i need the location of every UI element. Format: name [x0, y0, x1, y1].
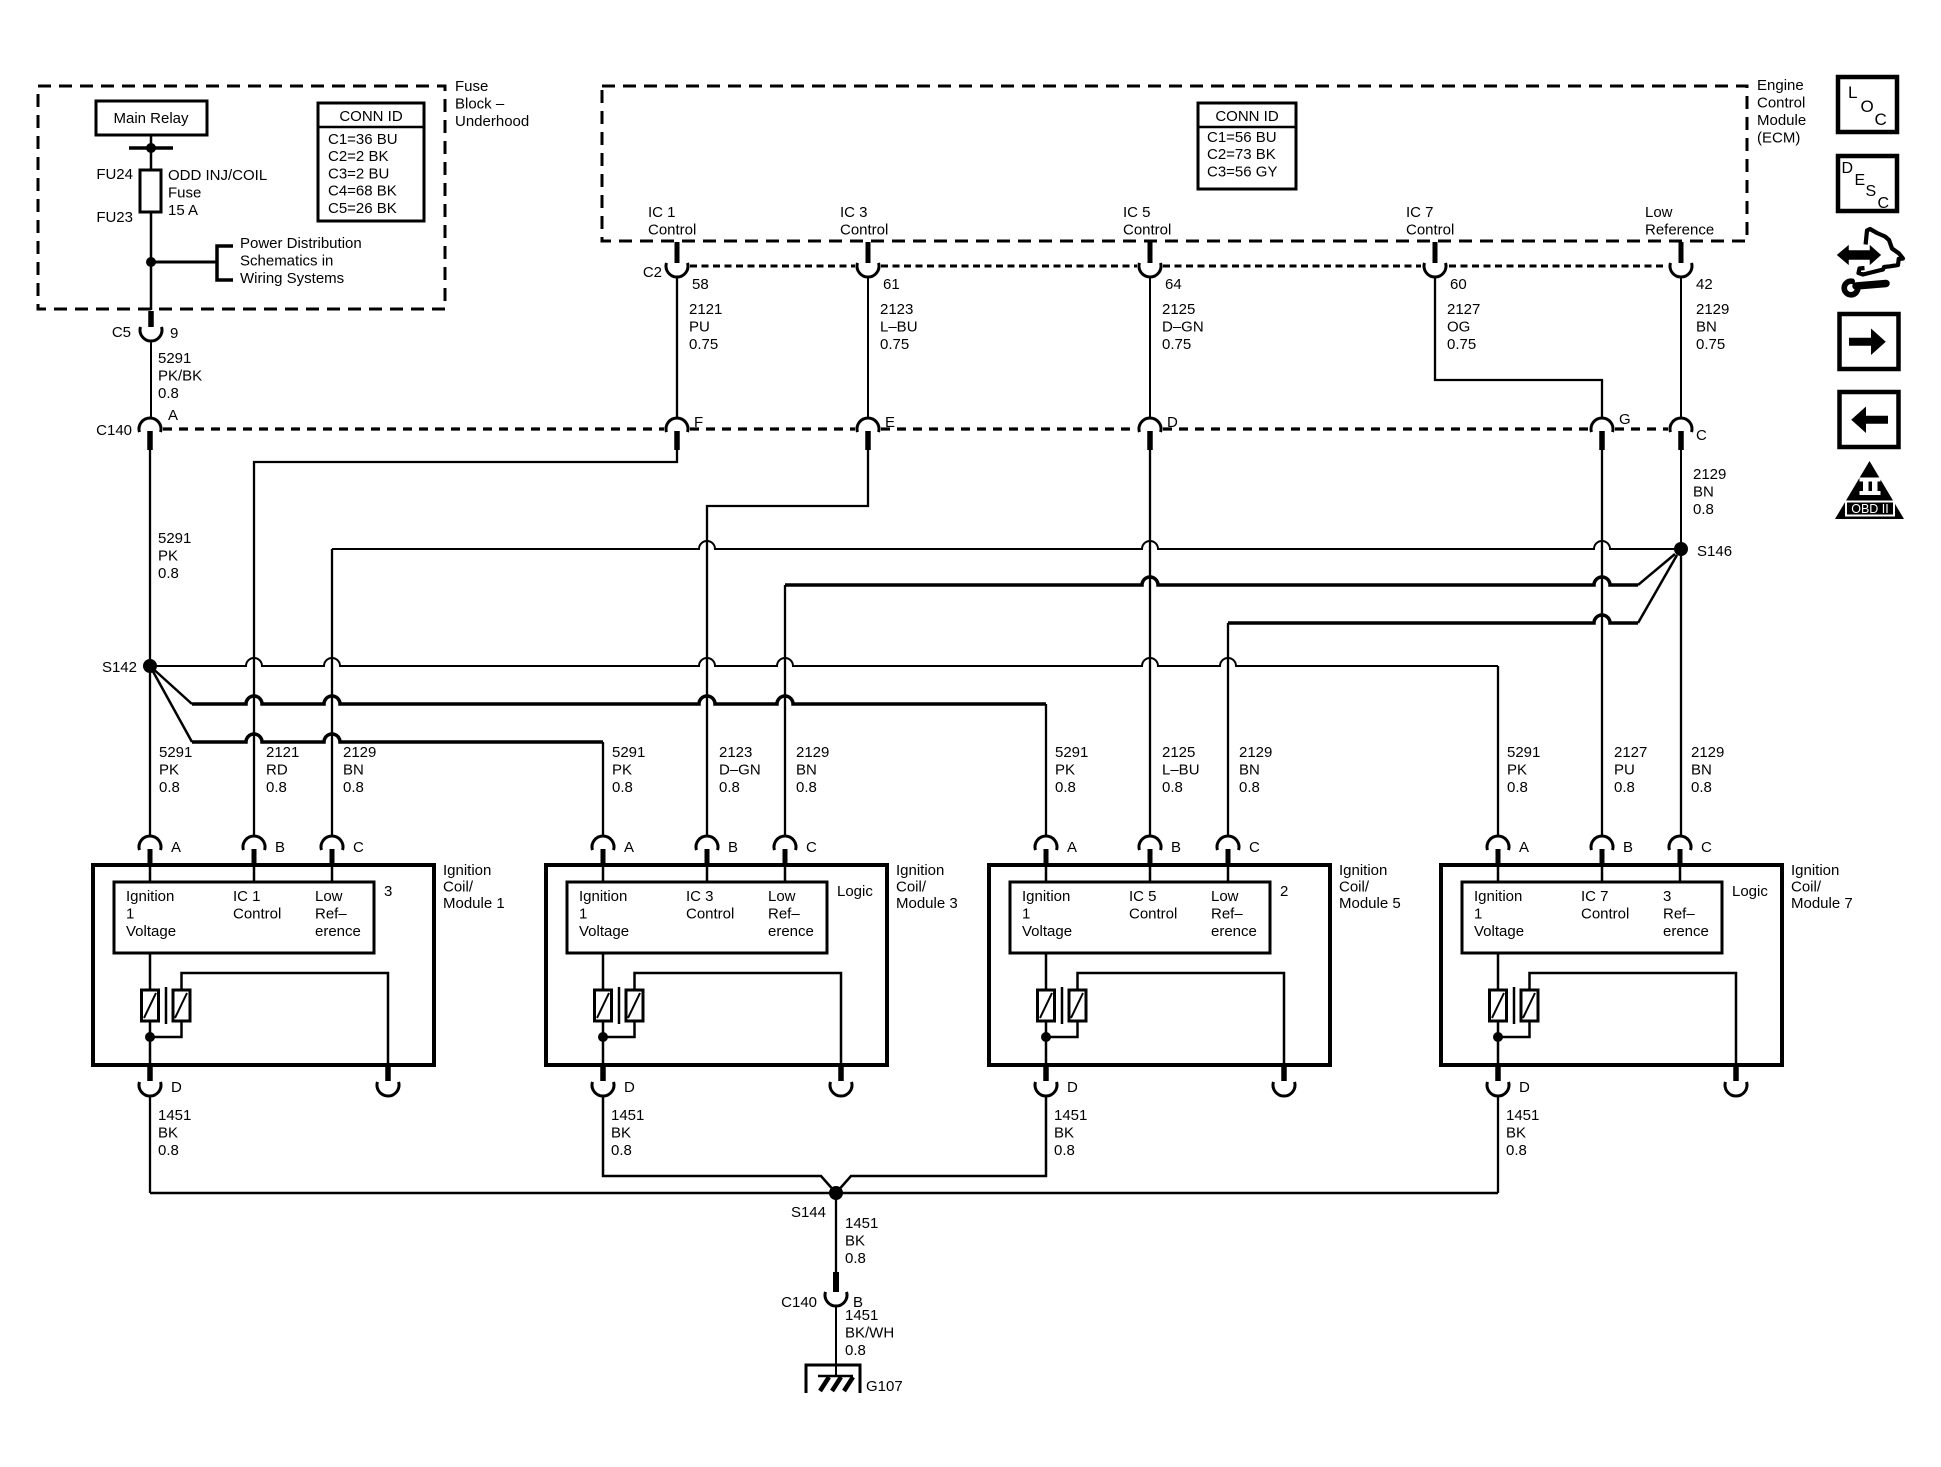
svg-text:D–GN: D–GN	[1162, 318, 1204, 335]
C2 harness dotted line	[690, 265, 1667, 268]
svg-text:2121: 2121	[266, 744, 299, 761]
label Ignition Coil/ Module 1	[443, 862, 505, 912]
coil T3 core	[618, 987, 621, 1024]
svg-text:61: 61	[883, 276, 900, 293]
label 3 Ref-erence	[1663, 888, 1709, 940]
svg-text:B: B	[1623, 839, 1633, 856]
svg-text:C: C	[1701, 839, 1712, 856]
wire bus 2129 BN S146 to module1 pin C	[332, 541, 1674, 836]
svg-text:(ECM): (ECM)	[1757, 129, 1800, 146]
svg-text:5291: 5291	[158, 350, 191, 367]
svg-text:ODD INJ/COIL: ODD INJ/COIL	[168, 167, 267, 184]
pin letter B	[853, 1294, 863, 1311]
wire bus 5291 PK S142 to module7 pin A	[150, 658, 1498, 836]
module 1 logic block	[114, 882, 374, 953]
svg-text:B: B	[1171, 839, 1181, 856]
svg-text:1: 1	[1022, 905, 1030, 922]
wire logic block to primary winding	[149, 953, 152, 990]
coil T5 core	[1061, 987, 1064, 1024]
value label 5291 PK 0.8	[159, 744, 192, 796]
pin letter A	[624, 839, 634, 856]
svg-text:0.8: 0.8	[1614, 779, 1635, 796]
svg-text:0.75: 0.75	[1696, 336, 1725, 353]
svg-text:Ref–: Ref–	[768, 905, 800, 922]
wire junction to pin D	[602, 1037, 605, 1065]
wire logic block to primary winding	[602, 953, 605, 990]
svg-text:Module 3: Module 3	[896, 895, 958, 912]
svg-text:2127: 2127	[1447, 301, 1480, 318]
pin letter C	[1249, 839, 1260, 856]
wire S142 down to module1 pin A	[149, 666, 151, 836]
label Ignition 1 Voltage	[1474, 888, 1524, 940]
splice S144	[829, 1186, 843, 1200]
coil T7 core	[1513, 987, 1516, 1024]
svg-text:Low: Low	[768, 888, 796, 905]
svg-text:Ignition: Ignition	[443, 862, 491, 879]
svg-text:PU: PU	[689, 318, 710, 335]
label IC 7 Control	[1581, 888, 1629, 923]
wire junction to pin D	[1497, 1037, 1500, 1065]
value label 5291 PK/BK 0.8	[158, 350, 202, 402]
svg-text:2123: 2123	[719, 744, 752, 761]
wire relay to bus bar	[150, 135, 153, 148]
connector C2 pin 42	[1670, 242, 1692, 277]
label Ignition 1 Voltage	[579, 888, 629, 940]
module 7 pin feed wires into logic block	[1498, 866, 1680, 882]
pin letter A	[171, 839, 181, 856]
wire C140-D to module5 pin B	[1149, 450, 1151, 836]
svg-text:L–BU: L–BU	[880, 318, 918, 335]
svg-text:1451: 1451	[1506, 1107, 1539, 1124]
corner label Logic	[837, 883, 873, 900]
junction dot module 3 windings	[598, 1032, 608, 1042]
svg-text:C: C	[806, 839, 817, 856]
wire 1451 BK module1 D to ground bus	[149, 1096, 151, 1193]
svg-text:0.8: 0.8	[1055, 779, 1076, 796]
svg-text:FU23: FU23	[96, 209, 133, 226]
value label 2129 BN 0.8 upper	[1693, 466, 1726, 518]
connector module 5 pin A	[1035, 836, 1057, 866]
svg-text:B: B	[275, 839, 285, 856]
connector C140 pin B	[825, 1272, 847, 1306]
icon OBD II triangle	[1835, 461, 1904, 519]
value label 1451 BK 0.8 module 7	[1506, 1107, 1539, 1159]
svg-text:5291: 5291	[159, 744, 192, 761]
ECM output label Low Reference	[1645, 204, 1714, 239]
svg-text:3: 3	[1663, 888, 1671, 905]
corner label 2	[1280, 883, 1288, 900]
svg-text:PK: PK	[612, 761, 632, 778]
pin letter B	[275, 839, 285, 856]
svg-text:Low: Low	[315, 888, 343, 905]
svg-text:0.8: 0.8	[343, 779, 364, 796]
svg-text:E: E	[1855, 172, 1866, 189]
icon diagnostic double arrow with wrench	[1838, 229, 1903, 295]
svg-text:OBD II: OBD II	[1851, 502, 1889, 516]
wire junction to off-page bracket	[151, 261, 216, 264]
connector module 7 pin C	[1669, 836, 1691, 866]
svg-text:erence: erence	[1663, 923, 1709, 940]
pin letter A	[168, 407, 178, 424]
svg-text:2123: 2123	[880, 301, 913, 318]
svg-text:erence: erence	[1211, 923, 1257, 940]
corner label 3	[384, 883, 392, 900]
coil T7 secondary winding	[1521, 990, 1538, 1021]
label IC 3 Control	[686, 888, 734, 923]
module 7 logic block	[1462, 882, 1722, 953]
connector C140 pin A	[139, 418, 161, 450]
value label 2129 BN 0.75	[1696, 301, 1729, 353]
ignition coil module 1 outer box	[93, 865, 434, 1065]
value label 2123 D&#8211;GN 0.8	[719, 744, 761, 796]
junction dot module 5 windings	[1041, 1032, 1051, 1042]
wire secondary return to junction	[150, 1021, 182, 1037]
svg-text:2129: 2129	[1691, 744, 1724, 761]
svg-text:A: A	[1067, 839, 1077, 856]
icon arrow left box	[1840, 392, 1899, 447]
wire bus 5291 PK S142 to module3 pin A	[150, 666, 603, 836]
wire primary to junction	[1045, 1021, 1048, 1037]
wire S144 to C140-B	[835, 1193, 837, 1272]
svg-text:1451: 1451	[158, 1107, 191, 1124]
label C5	[112, 324, 131, 341]
ECM dashed box	[602, 86, 1747, 241]
svg-text:Module: Module	[1757, 112, 1806, 129]
svg-text:C5=26 BK: C5=26 BK	[328, 200, 397, 217]
module 1 pin feed wires into logic block	[150, 866, 332, 882]
wire bus 2129 BN S146 to module3 pin C	[785, 554, 1675, 836]
pin letter F	[694, 414, 703, 431]
svg-text:Ref–: Ref–	[1211, 905, 1243, 922]
svg-text:Logic: Logic	[1732, 883, 1768, 900]
label Ignition Coil/ Module 5	[1339, 862, 1401, 912]
coil T1 secondary winding	[173, 990, 190, 1021]
svg-text:0.8: 0.8	[845, 1342, 866, 1359]
svg-text:Control: Control	[648, 221, 696, 238]
svg-text:C: C	[1875, 110, 1887, 129]
svg-text:C3=2 BU: C3=2 BU	[328, 165, 389, 182]
ignition coil module 7 outer box	[1441, 865, 1782, 1065]
wire C140-G to module7 pin B	[1601, 450, 1603, 836]
svg-text:0.8: 0.8	[158, 385, 179, 402]
ECM output label IC 5 Control	[1123, 204, 1171, 239]
svg-text:PK: PK	[159, 761, 179, 778]
svg-text:0.75: 0.75	[1162, 336, 1191, 353]
connector module 3 spark output	[830, 1067, 852, 1096]
label Ignition Coil/ Module 3	[896, 862, 958, 912]
svg-text:2129: 2129	[1239, 744, 1272, 761]
coil T3 primary winding	[595, 990, 612, 1021]
pin letter B	[1171, 839, 1181, 856]
svg-text:A: A	[168, 407, 178, 424]
svg-text:Ignition: Ignition	[126, 888, 174, 905]
svg-text:9: 9	[170, 325, 178, 342]
svg-text:D: D	[1842, 160, 1854, 177]
wire primary to junction	[602, 1021, 605, 1037]
svg-text:D: D	[1067, 1079, 1078, 1096]
svg-text:Engine: Engine	[1757, 77, 1804, 94]
svg-text:erence: erence	[315, 923, 361, 940]
svg-text:C4=68 BK: C4=68 BK	[328, 183, 397, 200]
svg-text:Voltage: Voltage	[1474, 923, 1524, 940]
connector module 7 pin B	[1591, 836, 1613, 866]
label IC 5 Control	[1129, 888, 1177, 923]
svg-text:D: D	[171, 1079, 182, 1096]
value label 2129 BN 0.8	[796, 744, 829, 796]
svg-text:IC 1: IC 1	[648, 204, 676, 221]
connector module 5 pin C	[1217, 836, 1239, 866]
ignition coil module 5 outer box	[989, 865, 1330, 1065]
svg-text:0.8: 0.8	[159, 779, 180, 796]
label G107	[866, 1378, 903, 1395]
pin letter D	[1519, 1079, 1530, 1096]
fuse block underhood dashed box	[38, 86, 445, 309]
wire logic block to primary winding	[1045, 953, 1048, 990]
svg-text:0.8: 0.8	[612, 779, 633, 796]
module 5 logic block	[1010, 882, 1270, 953]
svg-text:C: C	[353, 839, 364, 856]
connector module 7 pin D	[1487, 1067, 1509, 1096]
svg-text:1451: 1451	[1054, 1107, 1087, 1124]
label Engine Control Module (ECM)	[1757, 77, 1806, 147]
svg-text:C1=56 BU: C1=56 BU	[1207, 129, 1277, 146]
svg-text:Ignition: Ignition	[1474, 888, 1522, 905]
svg-text:IC 3: IC 3	[686, 888, 714, 905]
corner label Logic	[1732, 883, 1768, 900]
svg-text:64: 64	[1165, 276, 1182, 293]
svg-text:1: 1	[579, 905, 587, 922]
svg-text:C2=2 BK: C2=2 BK	[328, 148, 388, 165]
pin number 42	[1696, 276, 1713, 293]
connector module 1 pin B	[243, 836, 265, 866]
svg-text:1: 1	[1474, 905, 1482, 922]
svg-text:0.8: 0.8	[1239, 779, 1260, 796]
pin label FU23	[96, 209, 133, 226]
svg-text:Low: Low	[1645, 204, 1673, 221]
svg-text:2129: 2129	[796, 744, 829, 761]
svg-text:IC 3: IC 3	[840, 204, 868, 221]
label Low Ref-erence	[1211, 888, 1257, 940]
value label 2127 PU 0.8	[1614, 744, 1647, 796]
svg-text:PK/BK: PK/BK	[158, 367, 202, 384]
svg-text:5291: 5291	[612, 744, 645, 761]
svg-text:BK: BK	[1054, 1124, 1074, 1141]
connector C2 pin 58	[666, 242, 688, 277]
connector module 7 pin A	[1487, 836, 1509, 866]
connector module 5 pin D	[1035, 1067, 1057, 1096]
wire S146 to module7 pin C circuit 2129 BN	[1680, 549, 1682, 836]
icon DESC box	[1838, 156, 1897, 212]
svg-text:O: O	[1861, 97, 1874, 116]
coil T5 primary winding	[1038, 990, 1055, 1021]
connector module 1 pin A	[139, 836, 161, 866]
label C140	[781, 1294, 817, 1311]
wire secondary return to junction	[1498, 1021, 1530, 1037]
svg-text:C3=56 GY: C3=56 GY	[1207, 163, 1277, 180]
pin letter B	[728, 839, 738, 856]
label C2	[643, 264, 662, 281]
svg-text:2129: 2129	[343, 744, 376, 761]
wire junction to pin D	[149, 1037, 152, 1065]
ECM output label IC 1 Control	[648, 204, 696, 239]
svg-text:Ref–: Ref–	[1663, 905, 1695, 922]
svg-text:C2=73 BK: C2=73 BK	[1207, 146, 1276, 163]
wire 1451 BK module5 D to S144	[836, 1096, 1046, 1193]
svg-text:2121: 2121	[689, 301, 722, 318]
svg-text:BN: BN	[796, 761, 817, 778]
coil T1 primary winding	[142, 990, 159, 1021]
svg-text:FU24: FU24	[96, 166, 133, 183]
svg-text:C1=36 BU: C1=36 BU	[328, 131, 398, 148]
svg-text:Control: Control	[1406, 221, 1454, 238]
value label 2123 L-BU 0.75	[880, 301, 918, 353]
connector C2 pin 64	[1139, 242, 1161, 277]
value label 5291 PK 0.8	[1055, 744, 1088, 796]
module 5 pin feed wires into logic block	[1046, 866, 1228, 882]
relay K Main Relay	[96, 101, 207, 135]
pin letter D	[1067, 1079, 1078, 1096]
svg-text:BK: BK	[845, 1232, 865, 1249]
svg-text:A: A	[1519, 839, 1529, 856]
pin letter C	[353, 839, 364, 856]
wire secondary high to spark output	[1530, 973, 1737, 1065]
svg-text:1: 1	[126, 905, 134, 922]
svg-text:C5: C5	[112, 324, 131, 341]
svg-text:BK/WH: BK/WH	[845, 1324, 894, 1341]
label Low Ref-erence	[768, 888, 814, 940]
wire junction to pin D	[1045, 1037, 1048, 1065]
connector module 5 pin B	[1139, 836, 1161, 866]
svg-text:Logic: Logic	[837, 883, 873, 900]
svg-text:0.75: 0.75	[1447, 336, 1476, 353]
value label 1451 BK 0.8 module 3	[611, 1107, 644, 1159]
ECM output label IC 7 Control	[1406, 204, 1454, 239]
svg-text:Module 1: Module 1	[443, 895, 505, 912]
pin letter B	[1623, 839, 1633, 856]
svg-text:C: C	[1249, 839, 1260, 856]
svg-text:Fuse: Fuse	[168, 184, 201, 201]
svg-text:1451: 1451	[611, 1107, 644, 1124]
svg-text:IC 5: IC 5	[1129, 888, 1157, 905]
value label 5291 PK 0.8	[158, 530, 191, 582]
value label 2129 BN 0.8	[1691, 744, 1724, 796]
label C140	[96, 422, 132, 439]
junction dot module 7 windings	[1493, 1032, 1503, 1042]
svg-text:Ignition: Ignition	[1791, 862, 1839, 879]
svg-text:PK: PK	[1507, 761, 1527, 778]
connector C140 pin C	[1670, 418, 1692, 450]
svg-text:S144: S144	[791, 1204, 826, 1221]
pin letter E	[885, 414, 895, 431]
connector C140 pin F	[666, 418, 688, 450]
ground G107	[806, 1365, 860, 1393]
icon arrow right box	[1840, 314, 1899, 369]
wire primary to junction	[1497, 1021, 1500, 1037]
wire 2121 PU from pin 58 to C140-F	[676, 277, 678, 418]
svg-text:Control: Control	[233, 905, 281, 922]
svg-text:0.8: 0.8	[158, 1142, 179, 1159]
wire bar to fuse FU24	[150, 148, 153, 170]
svg-text:D: D	[1519, 1079, 1530, 1096]
value label 5291 PK 0.8	[1507, 744, 1540, 796]
svg-text:PU: PU	[1614, 761, 1635, 778]
wire secondary high to spark output	[635, 973, 842, 1065]
module 3 logic block	[567, 882, 827, 953]
svg-text:Ref–: Ref–	[315, 905, 347, 922]
pin letter G	[1619, 411, 1631, 428]
svg-text:BK: BK	[611, 1124, 631, 1141]
CONN ID table fuse block	[318, 103, 424, 221]
ignition coil module 3 outer box	[546, 865, 887, 1065]
svg-text:RD: RD	[266, 761, 288, 778]
svg-text:G: G	[1619, 411, 1631, 428]
pin number 58	[692, 276, 709, 293]
svg-text:BN: BN	[1693, 483, 1714, 500]
connector module 7 spark output	[1725, 1067, 1747, 1096]
value label 2125 L&#8211;BU 0.8	[1162, 744, 1200, 796]
label S144	[791, 1204, 826, 1221]
svg-text:A: A	[624, 839, 634, 856]
svg-text:C140: C140	[781, 1294, 817, 1311]
svg-text:D–GN: D–GN	[719, 761, 761, 778]
connector module 3 pin A	[592, 836, 614, 866]
svg-text:Ignition: Ignition	[579, 888, 627, 905]
svg-text:2125: 2125	[1162, 744, 1195, 761]
connector module 3 pin C	[774, 836, 796, 866]
svg-text:5291: 5291	[1507, 744, 1540, 761]
icon LOC box	[1838, 77, 1897, 132]
wire 2129 BN from pin 42 to C140-C	[1680, 277, 1682, 418]
svg-text:Block –: Block –	[455, 95, 505, 112]
wire secondary high to spark output	[182, 973, 389, 1065]
value label 1451 BK 0.8 module 1	[158, 1107, 191, 1159]
svg-text:IC 5: IC 5	[1123, 204, 1151, 221]
svg-text:Schematics in: Schematics in	[240, 252, 333, 269]
wire 1451 BK module3 D to S144	[603, 1096, 836, 1193]
svg-text:G107: G107	[866, 1378, 903, 1395]
label Low Ref-erence	[315, 888, 361, 940]
svg-text:BN: BN	[1696, 318, 1717, 335]
svg-text:5291: 5291	[158, 530, 191, 547]
pin letter D	[624, 1079, 635, 1096]
connector C5 pin 9	[140, 311, 162, 341]
svg-text:Low: Low	[1211, 888, 1239, 905]
wire C5 to C140-A circuit 5291	[150, 341, 152, 418]
pin letter C	[806, 839, 817, 856]
svg-text:2129: 2129	[1693, 466, 1726, 483]
svg-text:0.8: 0.8	[611, 1142, 632, 1159]
splice S146	[1674, 542, 1688, 556]
wire C140-E jog to module3 pin B	[707, 450, 868, 836]
pin number 9	[170, 325, 178, 342]
wire 2123 L-BU from pin 61 to C140-E	[867, 277, 869, 418]
svg-text:0.75: 0.75	[880, 336, 909, 353]
C140 harness dashed line	[163, 427, 1668, 430]
connector C2 pin 61	[857, 242, 879, 277]
svg-text:Module 7: Module 7	[1791, 895, 1853, 912]
svg-text:A: A	[171, 839, 181, 856]
svg-text:58: 58	[692, 276, 709, 293]
svg-text:5291: 5291	[1055, 744, 1088, 761]
wire bus 5291 PK S142 to module5 pin A	[150, 666, 1046, 836]
wire primary to junction	[149, 1021, 152, 1037]
svg-text:CONN ID: CONN ID	[339, 108, 403, 125]
svg-text:Control: Control	[1757, 94, 1805, 111]
connector module 5 spark output	[1273, 1067, 1295, 1096]
wire fuse to junction	[150, 212, 153, 262]
wire secondary return to junction	[1046, 1021, 1078, 1037]
svg-text:BK: BK	[1506, 1124, 1526, 1141]
